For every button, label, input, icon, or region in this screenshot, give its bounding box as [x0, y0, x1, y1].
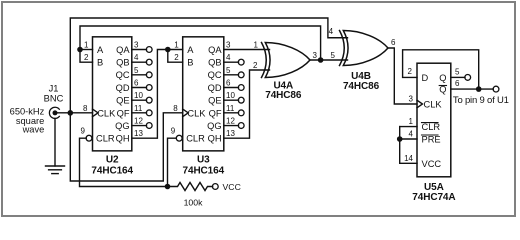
wire U5A Qbar output	[451, 88, 494, 90]
svg-text:Q: Q	[439, 73, 446, 83]
svg-text:8: 8	[83, 104, 88, 113]
svg-text:A: A	[97, 45, 104, 55]
svg-text:4: 4	[409, 130, 414, 139]
U2 QD stub pin 6	[132, 85, 152, 91]
label U4B 74HC86	[343, 71, 380, 92]
svg-text:PRE: PRE	[422, 135, 441, 145]
svg-text:1: 1	[254, 41, 259, 50]
wire U2 QH to U3 A B	[132, 50, 168, 139]
svg-text:3: 3	[226, 41, 231, 50]
U5A clock triangle pin 3	[417, 100, 423, 108]
svg-text:wave: wave	[22, 125, 45, 135]
wire U4B output to U5A CLK	[388, 48, 417, 104]
svg-text:2: 2	[253, 61, 258, 70]
svg-text:100k: 100k	[184, 198, 203, 208]
node PRE tie junction	[397, 136, 403, 142]
svg-text:QE: QE	[116, 96, 129, 106]
U2 right pin numbers	[134, 41, 143, 139]
svg-text:5: 5	[226, 66, 231, 75]
U3 QD stub pin 6	[224, 85, 244, 91]
svg-text:QA: QA	[116, 45, 130, 55]
ground	[46, 166, 65, 174]
svg-text:3: 3	[134, 41, 139, 50]
node CLR pullup junction	[165, 184, 171, 190]
svg-text:QD: QD	[116, 83, 130, 93]
U3 QE stub pin 10	[224, 97, 244, 103]
svg-text:2: 2	[408, 67, 413, 76]
svg-text:QC: QC	[116, 70, 130, 80]
svg-text:6: 6	[391, 38, 396, 47]
svg-text:3: 3	[313, 51, 318, 60]
overline PRE	[422, 134, 439, 136]
IC U3 74HC164 box	[183, 37, 224, 151]
svg-text:12: 12	[134, 117, 143, 126]
svg-text:5: 5	[134, 66, 139, 75]
U3 clock triangle pin 8	[183, 109, 189, 117]
svg-text:9: 9	[81, 126, 86, 135]
svg-text:13: 13	[134, 129, 143, 138]
svg-text:QD: QD	[208, 83, 222, 93]
svg-text:6: 6	[134, 79, 139, 88]
svg-text:BNC: BNC	[44, 94, 64, 104]
terminal VCC circle	[212, 184, 218, 190]
node U3 AB junction	[165, 47, 171, 53]
svg-text:3: 3	[409, 95, 414, 104]
label J1 BNC	[44, 84, 64, 104]
U2 QE stub pin 10	[132, 97, 152, 103]
U5A pin numbers	[404, 67, 460, 163]
U3 QB stub pin 4	[224, 59, 244, 65]
svg-text:CLR: CLR	[96, 134, 115, 144]
label U2 74HC164	[91, 155, 133, 177]
svg-text:U2: U2	[106, 155, 119, 166]
U2 clock triangle pin 8	[93, 109, 99, 117]
label 650-kHz square wave	[10, 107, 45, 135]
wire U5A D feedback loop from Qbar	[403, 50, 479, 89]
wire clock rail to U4B input 4	[70, 18, 347, 113]
U2 QA stub pin 3	[132, 47, 152, 53]
wire BNC to U2 CLK	[57, 112, 93, 114]
U2 QG stub pin 12	[132, 123, 152, 129]
svg-text:CLK: CLK	[97, 108, 116, 118]
svg-text:QH: QH	[116, 134, 130, 144]
svg-text:CLK: CLK	[187, 108, 206, 118]
connector J1 BNC	[49, 107, 59, 118]
svg-text:74HC86: 74HC86	[265, 90, 302, 101]
wire U3 A B tie	[168, 50, 183, 63]
U4A pin numbers	[253, 41, 336, 71]
wire U5A CLR PRE VCC tie	[400, 127, 417, 164]
U2 QC stub pin 5	[132, 72, 152, 78]
U3 pin labels inside	[186, 45, 222, 144]
U2 pin labels inside	[96, 45, 130, 144]
svg-text:9: 9	[171, 126, 176, 135]
svg-text:QB: QB	[208, 58, 221, 68]
svg-text:1: 1	[409, 117, 414, 126]
svg-text:Q: Q	[439, 85, 446, 95]
overline CLR	[422, 122, 439, 124]
svg-text:QF: QF	[209, 108, 222, 118]
gate U4A 74HC86 xor	[262, 43, 311, 78]
svg-text:14: 14	[404, 154, 413, 163]
wire BNC stem to ground	[54, 118, 56, 166]
resistor 100k	[168, 183, 213, 191]
gate U4B 74HC86 xor	[340, 31, 389, 66]
svg-text:To pin 9 of U1: To pin 9 of U1	[453, 95, 509, 106]
svg-text:B: B	[187, 58, 193, 68]
U2 left pin numbers	[81, 41, 90, 136]
svg-text:4: 4	[226, 53, 231, 62]
wire U2 A B tie	[80, 50, 93, 63]
svg-text:12: 12	[226, 117, 235, 126]
U2 CLR bubble pin 9	[86, 135, 92, 141]
svg-text:10: 10	[226, 91, 235, 100]
label U5A 74HC74A	[412, 182, 455, 203]
node clock junction	[68, 110, 74, 116]
svg-text:QA: QA	[208, 45, 222, 55]
U2 QB stub pin 4	[132, 59, 152, 65]
svg-text:D: D	[422, 73, 429, 83]
IC U5A 74HC74A box	[417, 63, 451, 177]
svg-text:QH: QH	[208, 134, 222, 144]
U3 QC stub pin 5	[224, 72, 244, 78]
svg-text:J1: J1	[49, 84, 59, 94]
U5A Q stub pin 5	[451, 75, 471, 81]
node U4A output junction	[318, 57, 324, 63]
svg-text:QF: QF	[117, 108, 130, 118]
U3 CLR bubble pin 9	[176, 135, 182, 141]
svg-text:QE: QE	[208, 96, 221, 106]
svg-text:5: 5	[331, 51, 336, 60]
svg-text:5: 5	[455, 67, 460, 76]
wire clock bottom to U3 CLK	[70, 113, 182, 181]
svg-text:VCC: VCC	[422, 159, 442, 169]
U3 left pin numbers	[171, 41, 180, 136]
U2 QF stub pin 11	[132, 110, 152, 116]
svg-text:74HC164: 74HC164	[91, 165, 133, 176]
svg-text:74HC74A: 74HC74A	[412, 192, 455, 203]
wire U3 QH to U4A input 2	[224, 70, 270, 138]
svg-text:U3: U3	[197, 155, 210, 166]
svg-text:8: 8	[173, 104, 178, 113]
svg-text:B: B	[97, 58, 103, 68]
svg-text:QC: QC	[208, 70, 222, 80]
svg-text:VCC: VCC	[223, 182, 241, 192]
svg-text:4: 4	[329, 27, 334, 36]
svg-text:CLR: CLR	[186, 134, 205, 144]
svg-text:11: 11	[226, 104, 235, 113]
terminal to pin 9 circle	[493, 86, 499, 92]
overline Qbar	[439, 85, 446, 87]
U3 QF stub pin 11	[224, 110, 244, 116]
svg-text:CLK: CLK	[424, 99, 443, 109]
label U3 74HC164	[183, 155, 225, 177]
svg-text:A: A	[187, 45, 194, 55]
label U4A 74HC86	[265, 80, 302, 100]
node U2 AB junction	[77, 47, 83, 53]
svg-text:74HC86: 74HC86	[343, 81, 380, 92]
svg-text:11: 11	[134, 104, 143, 113]
U5A pin labels inside	[422, 73, 447, 169]
svg-text:QG: QG	[115, 121, 129, 131]
svg-text:6: 6	[455, 79, 460, 88]
svg-text:6: 6	[226, 79, 231, 88]
wire U4A output to U4B input 5	[310, 59, 348, 61]
svg-text:10: 10	[134, 91, 143, 100]
svg-text:2: 2	[84, 53, 89, 62]
wire U3 QA to U4A input 1	[224, 49, 270, 51]
svg-text:74HC164: 74HC164	[183, 165, 225, 176]
svg-text:1: 1	[84, 41, 89, 50]
svg-text:1: 1	[174, 41, 179, 50]
wire U2 CLR to pullup rail	[80, 138, 168, 186]
svg-text:4: 4	[134, 53, 139, 62]
node Qbar junction	[476, 86, 482, 92]
wire feedback from U4A output to U2 A B	[80, 26, 321, 60]
U3 right pin numbers	[226, 41, 235, 139]
U3 QG stub pin 12	[224, 123, 244, 129]
wire U3 CLR riser	[168, 138, 177, 186]
svg-text:QG: QG	[207, 121, 221, 131]
svg-text:QB: QB	[116, 58, 129, 68]
svg-text:13: 13	[226, 129, 235, 138]
svg-text:2: 2	[174, 53, 179, 62]
IC U2 74HC164 box	[93, 37, 132, 151]
svg-text:CLR: CLR	[422, 122, 441, 132]
U4B pin numbers	[329, 27, 396, 47]
